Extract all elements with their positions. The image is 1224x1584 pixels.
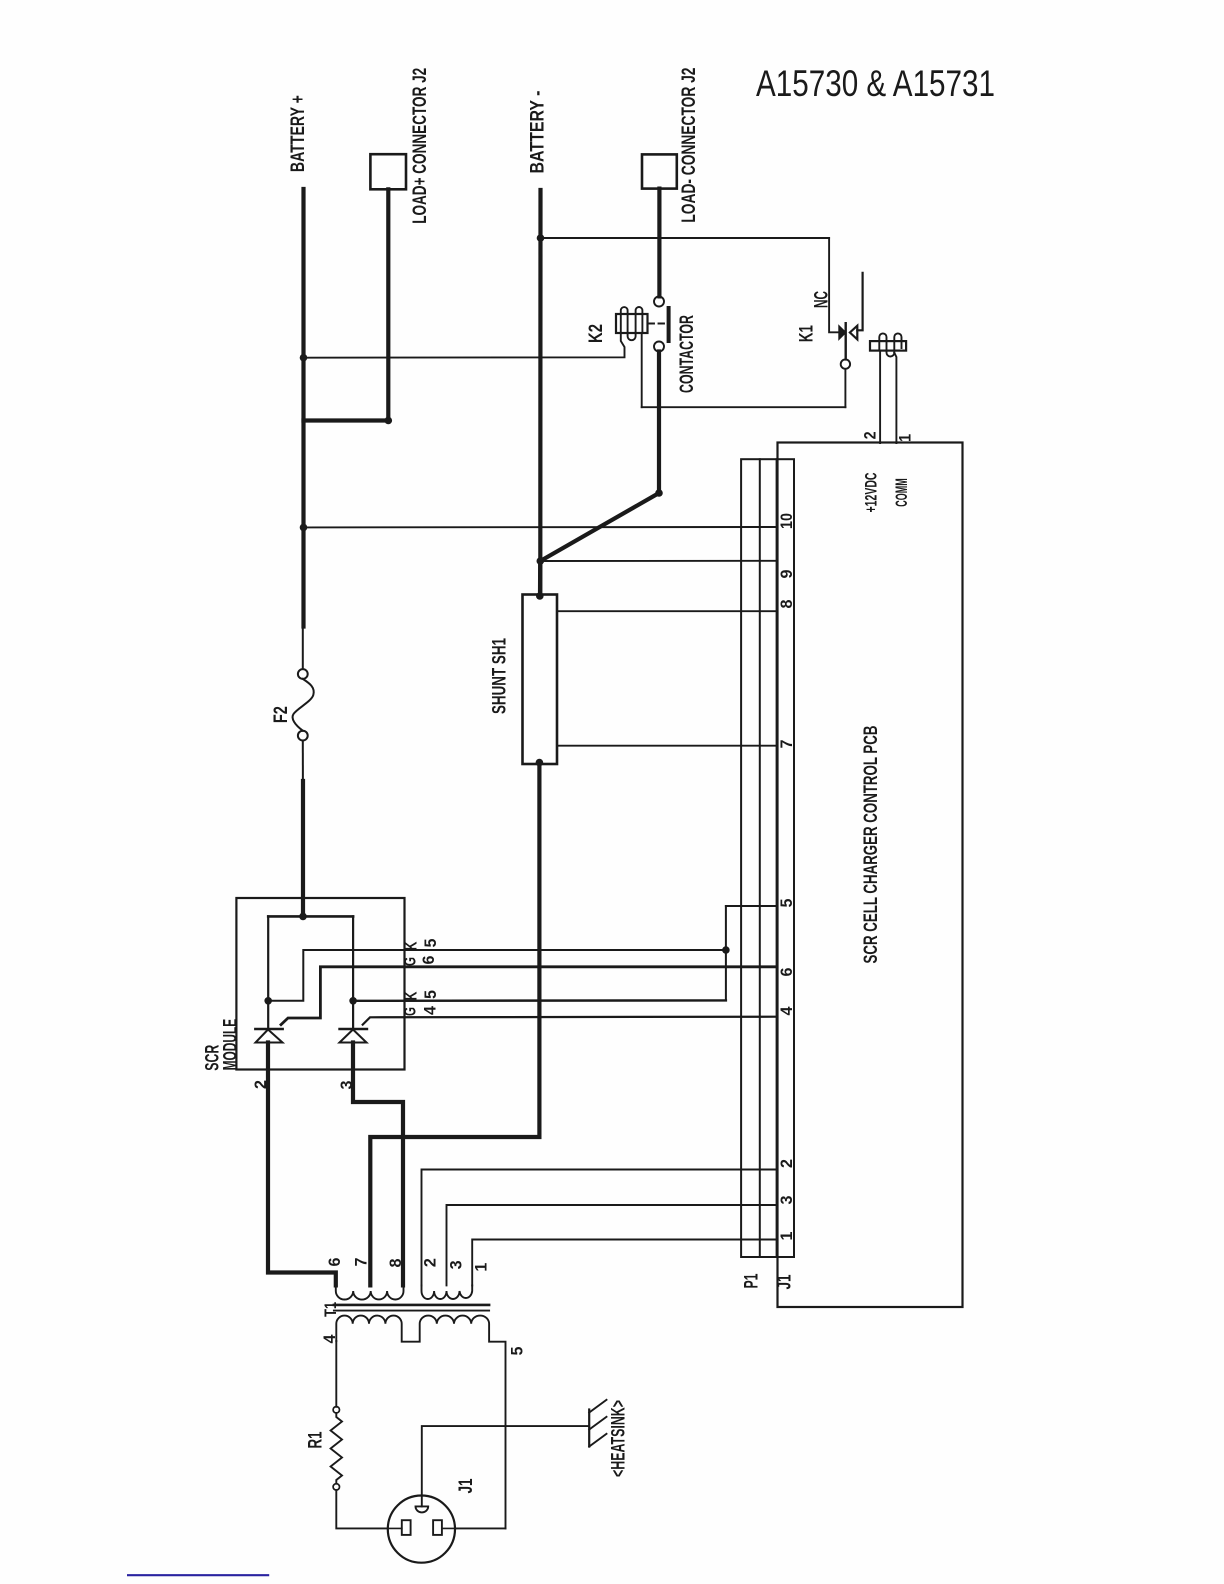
wire secondary pin2 to PCB [422, 1170, 777, 1286]
wire K1 NC fixed terminal [857, 273, 862, 330]
svg-text:7: 7 [777, 740, 796, 749]
wire R1 to plug [336, 1490, 388, 1528]
fuse F2 top circle [298, 669, 308, 679]
wire BATTERY- to K1 NC horizontal [541, 237, 830, 239]
SCR Q1 cathode bar [255, 1028, 282, 1030]
plug J1 left slot [402, 1520, 411, 1535]
svg-text:1: 1 [471, 1263, 490, 1272]
SCR Q2 cathode bar [340, 1028, 368, 1030]
wire secondary pin1 to PCB [472, 1240, 776, 1286]
connector J2 LOAD+ box [370, 154, 406, 189]
svg-text:1: 1 [777, 1232, 796, 1241]
svg-text:3: 3 [446, 1260, 465, 1269]
transformer secondary winding right (pins 2,3,1) [422, 1285, 473, 1299]
svg-text:COMM: COMM [892, 478, 911, 507]
svg-text:10: 10 [777, 513, 796, 529]
svg-text:LOAD+ CONNECTOR J2: LOAD+ CONNECTOR J2 [410, 68, 431, 224]
SCR Q1 triangle [256, 1030, 283, 1043]
svg-text:SHUNT SH1: SHUNT SH1 [489, 638, 510, 714]
wire K1 NC drop [829, 238, 839, 332]
relay coil K2 [616, 307, 648, 340]
svg-text:K1: K1 [797, 325, 818, 342]
junction dot diagonal/battery- [537, 557, 545, 565]
switch K1 NC contact filled triangle [839, 326, 845, 339]
svg-text:P1: P1 [741, 1273, 762, 1288]
transformer primary winding [336, 1316, 505, 1529]
svg-text:4: 4 [421, 1005, 440, 1015]
svg-text:5: 5 [421, 990, 440, 999]
svg-text:9: 9 [777, 570, 796, 579]
resistor R1 bottom circle [333, 1484, 339, 1490]
svg-text:BATTERY -: BATTERY - [528, 91, 549, 174]
connector band divider 1 [759, 459, 761, 1257]
wire G6 gate line [281, 967, 777, 1025]
plug J1 right slot [433, 1520, 442, 1535]
junction dot contactor elbow [655, 489, 663, 497]
contactor dashed link [649, 323, 666, 325]
heatsink hatch 2 [589, 1417, 606, 1430]
svg-text:+12VDC: +12VDC [862, 473, 881, 513]
wire anode right vertical [352, 916, 354, 1029]
transformer core line 1 [334, 1304, 489, 1307]
contactor contact top circle [654, 297, 664, 307]
wire coil pin 2 to PCB [879, 351, 881, 443]
wire fuse to SCR module thin [302, 741, 304, 782]
wire coil pin 1 to PCB [894, 353, 896, 443]
svg-text:2: 2 [861, 431, 880, 439]
wire cathode tie vertical [725, 906, 727, 1000]
SCR Q2 triangle [340, 1030, 367, 1043]
svg-text:<HEATSINK>: <HEATSINK> [609, 1400, 630, 1477]
wire LOAD+ to BATTERY+ elbow [304, 418, 389, 422]
svg-text:3: 3 [777, 1196, 796, 1205]
svg-text:J1: J1 [456, 1478, 477, 1493]
connector P1/J1 band [741, 459, 794, 1257]
plug J1 ground pin bowl [416, 1506, 429, 1512]
wire K2 coil left pin to BATTERY+ [304, 333, 625, 358]
svg-text:6: 6 [777, 968, 796, 977]
shunt SH1 box [523, 595, 558, 765]
wire anode left vertical [267, 916, 269, 1029]
wire BATTERY- vertical [538, 190, 542, 595]
wire pin5 into PCB [726, 905, 777, 907]
svg-text:CONTACTOR: CONTACTOR [677, 315, 698, 393]
junction dot BATTERY+ coil line [300, 354, 308, 362]
switch K1 contact bar / armature [845, 323, 847, 359]
plug J1 circle [388, 1496, 455, 1563]
wire SCR2 pin 3 thick [353, 1043, 403, 1286]
svg-text:7: 7 [351, 1258, 370, 1267]
wire pin9 line [540, 560, 776, 562]
connector J2 LOAD- box [642, 154, 677, 188]
relay coil K1 (PCB drive coil) [870, 333, 906, 356]
connector band divider 2 (PCB edge through band) [776, 459, 778, 1257]
wire battery+ to fuse [302, 627, 304, 670]
wire BATTERY+ vertical [301, 189, 305, 627]
svg-text:R1: R1 [306, 1431, 327, 1448]
svg-text:SCR CELL CHARGER CONTROL PCB: SCR CELL CHARGER CONTROL PCB [861, 726, 882, 964]
decorative blue underline [127, 1574, 269, 1576]
svg-text:F2: F2 [271, 706, 292, 723]
fuse F2 bottom circle [298, 731, 308, 741]
wire SCR1 pin 2 thick [268, 1043, 336, 1286]
resistor R1 top circle [333, 1407, 339, 1413]
svg-text:1: 1 [896, 434, 915, 442]
contactor blade bar [667, 306, 671, 343]
junction dot shunt top [536, 592, 544, 600]
svg-text:LOAD- CONNECTOR J2: LOAD- CONNECTOR J2 [679, 68, 700, 223]
fuse F2 element [293, 679, 314, 731]
junction dot K lines tie [722, 946, 730, 954]
svg-text:6: 6 [325, 1258, 344, 1267]
svg-text:K: K [402, 941, 421, 951]
wire pin5 to plug [456, 1527, 506, 1529]
switch K1 pivot circle [841, 359, 850, 368]
wire battery- net into shunt [538, 561, 542, 596]
wire plug ground to heatsink [422, 1426, 589, 1506]
wire diagonal contactor to shunt net [540, 493, 659, 561]
wire shunt bottom thick [370, 763, 539, 1286]
junction dot SCR2 cathode [349, 997, 357, 1005]
junction dot shunt bottom [536, 759, 544, 767]
svg-text:K: K [402, 991, 421, 1001]
junction dot LOAD+/BATTERY+ [385, 417, 393, 425]
contactor contact bottom circle [654, 342, 664, 352]
svg-text:5: 5 [508, 1347, 527, 1356]
svg-text:8: 8 [386, 1259, 405, 1268]
plug J1 inner stubs [388, 1527, 456, 1529]
wire secondary pin3 to PCB [447, 1205, 777, 1285]
junction dot anode bus [299, 913, 307, 921]
junction dot BATTERY- to K1 line [537, 234, 545, 242]
svg-text:6: 6 [419, 956, 438, 965]
transformer core line 2 [334, 1310, 489, 1312]
wire pin10 line [304, 526, 777, 528]
svg-text:3: 3 [337, 1081, 356, 1090]
svg-text:2: 2 [777, 1159, 796, 1168]
heatsink hatch 3 [589, 1434, 606, 1447]
junction dot pin10 at battery+ [300, 524, 308, 532]
svg-text:2: 2 [421, 1258, 440, 1267]
wire K cathode line 1 (pin 5) [268, 950, 726, 1001]
svg-text:G: G [401, 1007, 420, 1016]
wire K cathode line 2 (pin 5) [353, 999, 726, 1002]
wire LOAD+ drop [386, 189, 390, 420]
wire pin7 line [557, 745, 777, 747]
svg-text:8: 8 [777, 600, 796, 609]
resistor R1 zigzag [331, 1413, 342, 1484]
wire K2 coil to K1 armature horizontal [642, 406, 846, 408]
wire G4 gate line [363, 1017, 777, 1025]
svg-text:A15730 & A15731: A15730 & A15731 [756, 63, 995, 104]
heatsink hatch 1 [589, 1400, 606, 1413]
wire fuse to SCR module thick [301, 781, 305, 916]
transformer secondary winding left (pins 6,7,8) [336, 1285, 404, 1299]
svg-text:G: G [401, 957, 420, 966]
switch K1 open triangle [850, 326, 857, 340]
wire K1 armature lower [844, 369, 846, 407]
wire pin8 line [557, 610, 777, 612]
svg-text:MODULE: MODULE [221, 1019, 242, 1071]
svg-text:5: 5 [777, 899, 796, 908]
svg-text:4: 4 [777, 1006, 796, 1016]
junction dot SCR1 cathode [264, 997, 272, 1005]
wire LOAD- drop to contact [657, 189, 661, 297]
SCR module box [236, 898, 404, 1070]
wire pin4 to R1 [335, 1341, 337, 1407]
svg-text:2: 2 [251, 1080, 270, 1089]
PCB box SCR CELL CHARGER CONTROL PCB [778, 443, 963, 1308]
wire K2 coil right pin down [641, 333, 643, 407]
svg-text:5: 5 [421, 939, 440, 948]
svg-text:BATTERY +: BATTERY + [288, 95, 309, 172]
wire anode bus [268, 915, 353, 918]
svg-text:K2: K2 [586, 324, 607, 343]
wire contactor lower thick [657, 352, 661, 494]
heatsink ground bar [588, 1410, 590, 1447]
svg-text:J1: J1 [775, 1274, 796, 1289]
